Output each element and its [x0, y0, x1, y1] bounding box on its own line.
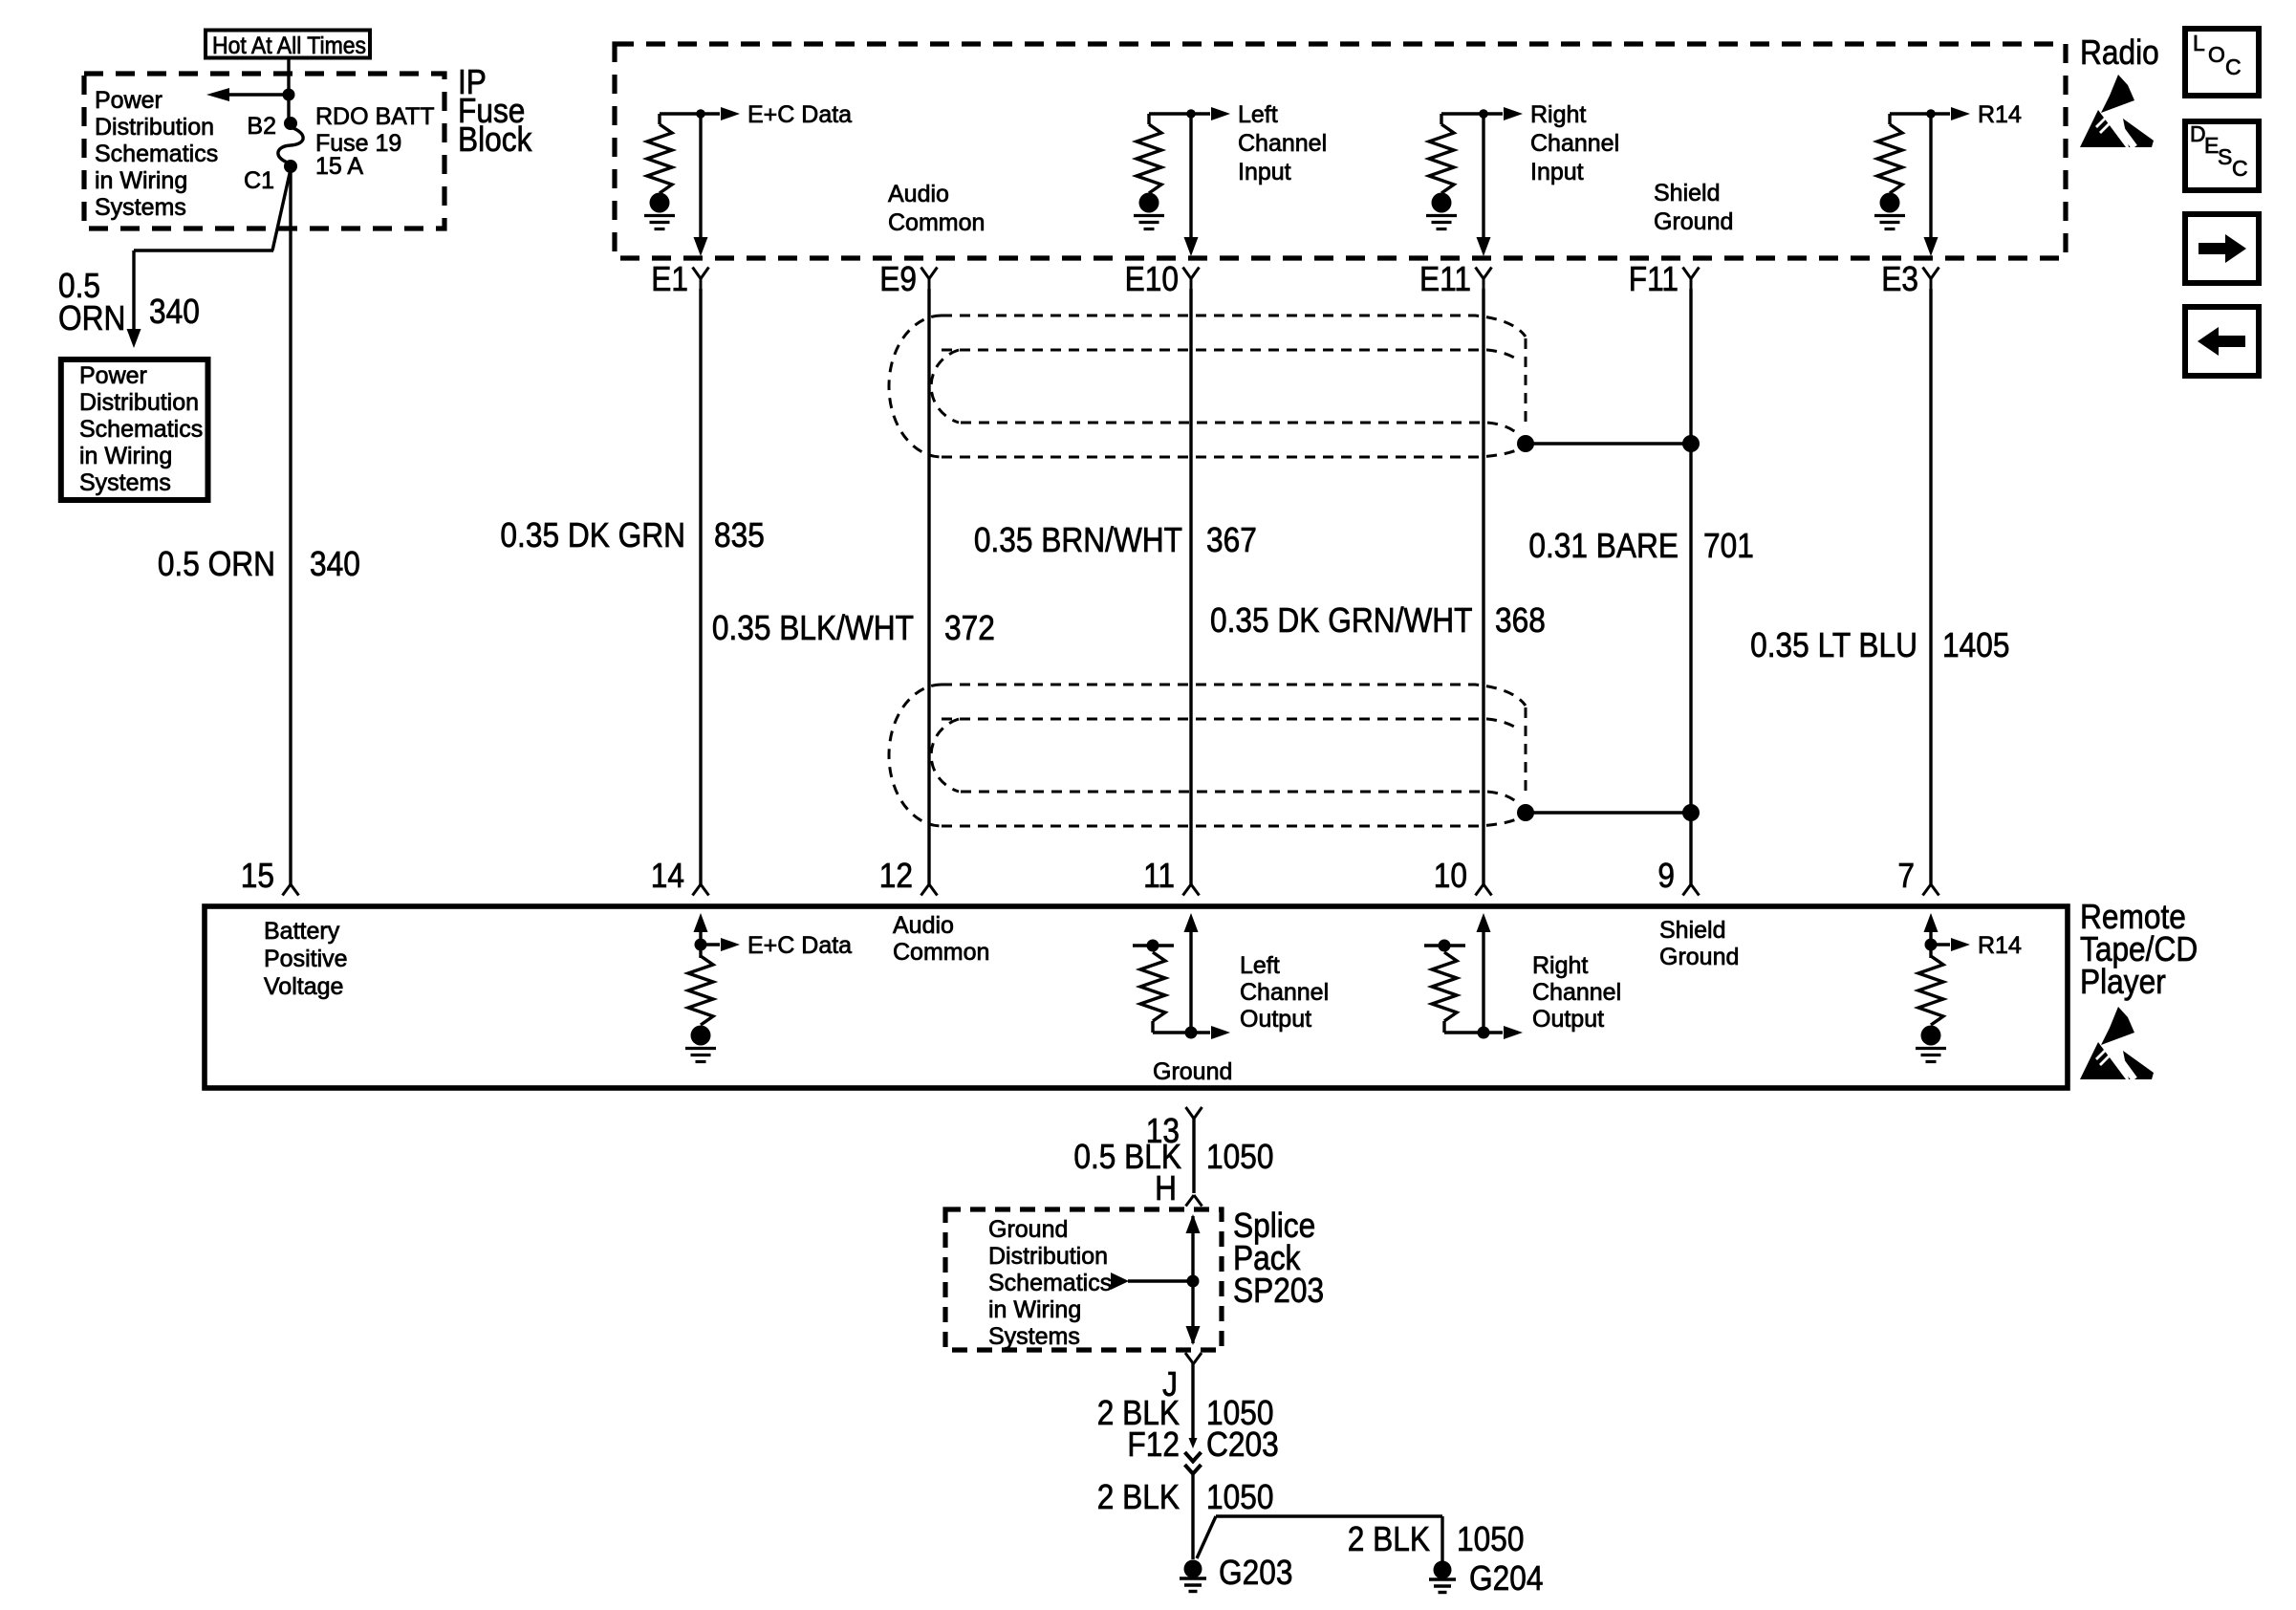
- svg-text:Distribution: Distribution: [95, 114, 214, 141]
- wire: output arrow: [1931, 112, 1950, 115]
- svg-text:Output: Output: [1532, 1006, 1604, 1033]
- svg-text:701: 701: [1703, 527, 1754, 565]
- svg-text:Voltage: Voltage: [264, 973, 343, 1000]
- wire: circuit 372 BLK/WHT (E9 to tape player): [927, 289, 930, 884]
- svg-text:E3: E3: [1881, 260, 1918, 298]
- svg-text:0.35 DK GRN/WHT: 0.35 DK GRN/WHT: [1210, 601, 1472, 640]
- icon: ESD symbol (Tape/CD Player): [2080, 1007, 2154, 1079]
- fuse F19: RDO BATT Fuse 19 15 A: [278, 127, 303, 163]
- svg-text:2 BLK: 2 BLK: [1097, 1478, 1180, 1516]
- icon: previous page arrow: [2185, 307, 2259, 376]
- svg-text:Hot At All Times: Hot At All Times: [212, 33, 366, 59]
- svg-text:Ground: Ground: [1153, 1058, 1232, 1085]
- node: junction: [1478, 1027, 1490, 1039]
- wire 340: 0.5 ORN battery feed to pin 15: [289, 166, 292, 884]
- svg-text:Schematics: Schematics: [95, 141, 218, 167]
- svg-text:10: 10: [1434, 857, 1467, 895]
- svg-text:Block: Block: [458, 120, 531, 159]
- svg-text:S: S: [2218, 144, 2232, 169]
- svg-text:ORN: ORN: [58, 299, 125, 337]
- wire 1050: 0.5 BLK ground lead: [1192, 1119, 1195, 1193]
- wire 1050: 2 BLK to C203: [1191, 1363, 1194, 1439]
- wire: down to connector pin: [1189, 114, 1192, 238]
- svg-text:G203: G203: [1219, 1554, 1292, 1592]
- svg-text:Shield: Shield: [1659, 917, 1726, 944]
- pin 7: tape/CD player connector: [1923, 884, 1932, 896]
- svg-text:0.35 BLK/WHT: 0.35 BLK/WHT: [712, 609, 914, 647]
- svg-text:0.5 ORN: 0.5 ORN: [158, 545, 275, 583]
- svg-text:Right: Right: [1530, 101, 1586, 128]
- node: junction: [1185, 1027, 1198, 1039]
- node: shield drain junction: [1517, 804, 1534, 821]
- node: junction: [696, 109, 705, 119]
- wire: down to connector pin: [699, 114, 702, 238]
- wire: player input at pin column 2020: [1929, 924, 1932, 946]
- svg-text:Power: Power: [79, 362, 147, 389]
- pin E1: radio connector: [693, 268, 702, 279]
- pin 9: tape/CD player connector: [1683, 884, 1692, 896]
- svg-text:R14: R14: [1978, 932, 2022, 959]
- svg-text:Distribution: Distribution: [79, 389, 199, 416]
- svg-text:Ground: Ground: [1659, 944, 1739, 970]
- svg-text:Schematics: Schematics: [988, 1270, 1112, 1296]
- wire: circuit 368 DK GRN/WHT (E11 to tape player): [1482, 289, 1484, 884]
- svg-text:Systems: Systems: [988, 1323, 1080, 1350]
- svg-text:0.35 LT BLU: 0.35 LT BLU: [1750, 626, 1917, 664]
- svg-text:Audio: Audio: [888, 181, 949, 207]
- svg-text:0.35 DK GRN: 0.35 DK GRN: [500, 516, 685, 555]
- resistor: radio internal pull-up at pin column 1552: [1440, 114, 1442, 124]
- wire: branch to G204: [1197, 1516, 1216, 1558]
- ground: radio internal: [650, 193, 670, 213]
- resistor: radio internal pull-up at pin column 733: [658, 114, 661, 124]
- pin E10: radio connector: [1183, 268, 1192, 279]
- svg-text:Positive: Positive: [264, 946, 348, 972]
- pin 14: tape/CD player connector: [693, 884, 702, 896]
- svg-text:Left: Left: [1240, 952, 1280, 979]
- box: Splice Pack SP203 (dashed): [945, 1209, 1222, 1350]
- svg-text:RDO BATT: RDO BATT: [315, 103, 435, 130]
- svg-text:G204: G204: [1469, 1559, 1543, 1598]
- icon: ESD symbol (Radio): [2080, 75, 2154, 147]
- wire: arrow to Power Distribution reference: [227, 93, 289, 96]
- svg-text:E+C Data: E+C Data: [747, 101, 852, 128]
- svg-text:C203: C203: [1206, 1425, 1279, 1464]
- wire: down to connector pin: [1929, 114, 1932, 238]
- ground: player internal: [691, 1026, 711, 1046]
- svg-text:in Wiring: in Wiring: [988, 1296, 1081, 1323]
- pin J: splice pack cavity: [1185, 1353, 1194, 1364]
- svg-text:Distribution: Distribution: [988, 1243, 1108, 1270]
- svg-text:Channel: Channel: [1532, 979, 1621, 1006]
- svg-text:Ground: Ground: [988, 1216, 1068, 1243]
- svg-text:Ground: Ground: [1654, 208, 1733, 235]
- pin 10: tape/CD player connector: [1476, 884, 1484, 896]
- svg-text:E1: E1: [651, 260, 688, 298]
- wire: branch from C1 to power distribution box: [272, 169, 291, 250]
- ground G204: [1434, 1561, 1452, 1579]
- svg-text:340: 340: [310, 545, 360, 583]
- svg-text:Systems: Systems: [95, 194, 186, 221]
- wire: circuit 701 BARE (F11 to tape player): [1689, 289, 1692, 884]
- svg-text:1050: 1050: [1457, 1520, 1524, 1558]
- node: shield drain junction: [1517, 435, 1534, 452]
- svg-text:835: 835: [714, 516, 765, 555]
- svg-text:C: C: [2232, 156, 2248, 181]
- node B2: fuse terminal: [284, 117, 297, 130]
- svg-text:Power: Power: [95, 87, 162, 114]
- wire: shield drain to F11/9 circuit: [1526, 442, 1691, 445]
- ground G203: [1184, 1560, 1202, 1578]
- svg-text:2 BLK: 2 BLK: [1348, 1520, 1431, 1558]
- svg-text:1405: 1405: [1942, 626, 2009, 664]
- ground: radio internal: [1139, 193, 1159, 213]
- wire: circuit 1405 LT BLU (E3 to tape player): [1929, 289, 1932, 884]
- svg-text:0.35 BRN/WHT: 0.35 BRN/WHT: [974, 521, 1182, 559]
- node C1: fuse terminal: [284, 160, 297, 173]
- node: junction under Hot At All Times: [283, 89, 295, 101]
- svg-text:Channel: Channel: [1240, 979, 1329, 1006]
- resistor: radio internal pull-up at pin column 1246: [1147, 114, 1150, 124]
- pin E11: radio connector: [1476, 268, 1484, 279]
- svg-text:15 A: 15 A: [315, 153, 363, 180]
- box: Power Distribution Schematics in Wiring Systems: [61, 359, 208, 500]
- svg-text:Left: Left: [1238, 101, 1278, 128]
- wire: circuit 835 DK GRN (E1 to tape player): [699, 289, 702, 884]
- node: junction: [1926, 109, 1936, 119]
- svg-text:in Wiring: in Wiring: [79, 443, 172, 469]
- svg-text:1050: 1050: [1206, 1478, 1273, 1516]
- svg-text:7: 7: [1897, 857, 1915, 895]
- pin 11: tape/CD player connector: [1183, 884, 1192, 896]
- svg-text:Input: Input: [1238, 159, 1291, 185]
- resistor: player internal at 733: [699, 945, 702, 958]
- svg-text:SP203: SP203: [1233, 1272, 1324, 1310]
- svg-text:E9: E9: [879, 260, 917, 298]
- shield: twisted pair cable shield (dashed cylinder): [942, 685, 1526, 706]
- svg-text:9: 9: [1657, 857, 1675, 895]
- node: junction: [1479, 109, 1488, 119]
- wire: output arrow: [1484, 112, 1503, 115]
- svg-text:Common: Common: [888, 209, 985, 236]
- pin 13: player ground pin: [1186, 1107, 1195, 1119]
- svg-text:Audio: Audio: [893, 912, 954, 939]
- box: Remote Tape/CD Player: [205, 906, 2068, 1088]
- svg-text:15: 15: [241, 857, 274, 895]
- svg-text:368: 368: [1495, 601, 1546, 640]
- svg-text:in Wiring: in Wiring: [95, 167, 187, 194]
- box: Hot At All Times label: [206, 31, 370, 58]
- svg-text:O: O: [2208, 42, 2225, 67]
- pin E9: radio connector: [921, 268, 930, 279]
- svg-text:0.31 BARE: 0.31 BARE: [1528, 527, 1679, 565]
- pin 12: tape/CD player connector: [921, 884, 930, 896]
- wire 1050: 2 BLK to G203: [1191, 1473, 1194, 1559]
- icon: next page arrow: [2185, 214, 2259, 283]
- svg-text:340: 340: [149, 293, 200, 331]
- svg-text:Channel: Channel: [1530, 130, 1619, 157]
- svg-text:Radio: Radio: [2080, 33, 2159, 72]
- node: junction: [1186, 109, 1196, 119]
- svg-text:F12: F12: [1127, 1425, 1180, 1464]
- svg-text:C1: C1: [244, 167, 274, 194]
- node: junction: [695, 939, 707, 951]
- svg-text:B2: B2: [247, 113, 276, 140]
- svg-text:Systems: Systems: [79, 469, 171, 496]
- node: junction: [1925, 939, 1938, 951]
- resistor: player output bias at column 1246: [1133, 944, 1174, 946]
- pin F11: radio connector: [1683, 268, 1692, 279]
- wire: through splice pack: [1191, 1216, 1194, 1343]
- wire: to ground distribution reference: [1128, 1279, 1193, 1282]
- svg-text:L: L: [2193, 31, 2205, 55]
- svg-text:11: 11: [1143, 857, 1175, 895]
- svg-text:F11: F11: [1629, 260, 1679, 298]
- svg-text:Output: Output: [1240, 1006, 1311, 1033]
- wire: output channel column 1246: [1189, 924, 1192, 1033]
- svg-text:372: 372: [944, 609, 995, 647]
- svg-text:E+C Data: E+C Data: [747, 932, 852, 959]
- ground: player internal: [1921, 1026, 1941, 1046]
- pin E3: radio connector: [1923, 268, 1932, 279]
- svg-text:H: H: [1155, 1169, 1177, 1207]
- resistor: player internal at 2020: [1929, 945, 1932, 958]
- box: IP Fuse Block (dashed): [84, 74, 444, 228]
- wire: down to connector pin: [1482, 114, 1484, 238]
- icon: DESC box: [2185, 121, 2259, 190]
- node: splice junction SP203: [1187, 1275, 1200, 1288]
- icon: LOC box: [2185, 29, 2259, 96]
- svg-text:C: C: [2225, 54, 2242, 79]
- svg-text:Player: Player: [2080, 963, 2166, 1001]
- svg-text:E10: E10: [1125, 260, 1179, 298]
- wire: circuit 367 BRN/WHT (E10 to tape player): [1189, 289, 1192, 884]
- svg-text:Battery: Battery: [264, 918, 340, 945]
- ground: radio internal: [1432, 193, 1452, 213]
- ground: radio internal: [1880, 193, 1900, 213]
- wire: output arrow: [701, 112, 720, 115]
- svg-text:Schematics: Schematics: [79, 416, 203, 443]
- wire: shield drain to F11/9 circuit: [1526, 811, 1691, 814]
- svg-text:1050: 1050: [1206, 1138, 1273, 1176]
- svg-text:Common: Common: [893, 939, 989, 966]
- svg-text:14: 14: [651, 857, 684, 895]
- box: Radio (dashed): [615, 44, 2066, 258]
- svg-text:12: 12: [879, 857, 913, 895]
- resistor: radio internal pull-up at pin column 2020: [1888, 114, 1891, 124]
- svg-text:Right: Right: [1532, 952, 1588, 979]
- wire: player input at pin column 733: [699, 924, 702, 946]
- svg-text:Input: Input: [1530, 159, 1584, 185]
- svg-text:E11: E11: [1419, 260, 1471, 298]
- svg-text:R14: R14: [1978, 101, 2022, 128]
- shield: twisted pair cable shield (dashed cylinder): [942, 315, 1526, 337]
- wire: output channel column 1552: [1482, 924, 1484, 1033]
- wire: Hot At All Times feed: [287, 58, 290, 95]
- svg-text:Channel: Channel: [1238, 130, 1327, 157]
- svg-text:367: 367: [1206, 521, 1257, 559]
- pin 15: tape/CD player connector: [283, 884, 292, 896]
- svg-text:Shield: Shield: [1654, 180, 1721, 207]
- resistor: player output bias at column 1552: [1424, 944, 1465, 946]
- wire: output arrow: [1191, 112, 1210, 115]
